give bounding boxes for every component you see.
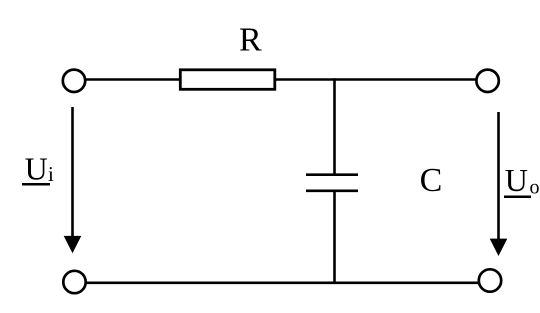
svg-text:o: o [530,177,540,199]
arrow Ui (head) [64,236,82,253]
svg-text:i: i [48,162,54,186]
terminal: input bottom [63,271,85,293]
arrow Ui (voltage arrow, shaft) [71,107,74,239]
underline of Uo [504,196,531,199]
terminal: input top [63,70,85,92]
underline of Ui [22,183,50,186]
svg-text:U: U [25,150,48,186]
wire: top rail, input terminal to resistor [85,78,180,81]
capacitor C bottom plate [306,190,358,193]
terminal: output bottom [479,269,501,291]
terminal: output top [476,70,498,92]
svg-text:R: R [239,21,262,58]
svg-text:U: U [505,162,528,198]
svg-text:C: C [420,162,443,199]
resistor R (box) [180,70,274,90]
wire: capacitor bottom lead [333,191,336,284]
capacitor C top plate [306,173,358,176]
wire: capacitor top lead (junction at top rail) [333,78,336,175]
wire: top rail, resistor to output terminal [275,78,477,81]
wire: bottom rail [85,281,479,284]
arrow Uo (voltage arrow, shaft) [497,112,500,241]
arrow Uo (head) [490,239,508,256]
